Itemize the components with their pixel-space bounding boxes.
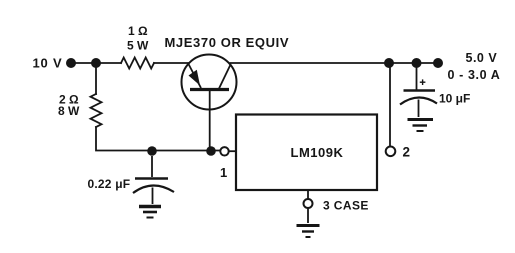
svg-text:0 - 3.0 A: 0 - 3.0 A: [448, 68, 501, 82]
svg-text:1 Ω: 1 Ω: [128, 24, 148, 38]
svg-text:1: 1: [220, 165, 227, 180]
svg-text:0.22 μF: 0.22 μF: [88, 177, 131, 191]
svg-text:10 μF: 10 μF: [439, 92, 470, 106]
svg-text:2: 2: [403, 145, 411, 160]
svg-text:5 W: 5 W: [127, 39, 149, 53]
svg-text:5.0 V: 5.0 V: [466, 51, 498, 65]
svg-text:LM109K: LM109K: [291, 145, 344, 160]
svg-text:3 CASE: 3 CASE: [323, 199, 369, 213]
svg-text:10 V: 10 V: [33, 56, 63, 71]
svg-text:8 W: 8 W: [58, 104, 80, 118]
svg-text:MJE370 OR EQUIV: MJE370 OR EQUIV: [165, 35, 290, 50]
